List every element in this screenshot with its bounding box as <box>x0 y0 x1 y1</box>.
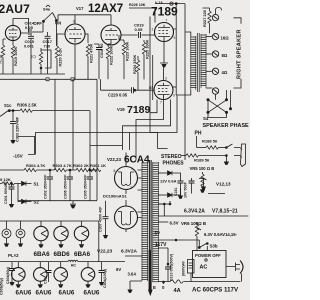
svg-text:-15V: -15V <box>13 154 24 159</box>
svg-text:10V 500F: 10V 500F <box>184 181 188 198</box>
wire diode feed <box>0 184 21 202</box>
resistor R225 100K <box>142 39 149 79</box>
svg-text:R306 2.5K: R306 2.5K <box>17 103 37 108</box>
resistor R306 2.5K <box>9 103 90 113</box>
diode D1 <box>158 171 180 180</box>
bus wire B1 <box>0 73 65 75</box>
resistor R221 470K <box>86 43 93 79</box>
svg-text:6BA6: 6BA6 <box>34 251 51 258</box>
svg-text:6V: 6V <box>116 267 121 272</box>
svg-text:SPEAKER PHASE: SPEAKER PHASE <box>203 123 250 129</box>
svg-text:R225 100K: R225 100K <box>146 39 150 59</box>
svg-text:C220 0.05: C220 0.05 <box>108 93 128 98</box>
wire V18 plate to rail <box>164 29 176 63</box>
capacitor C302 electrolytic <box>44 169 54 200</box>
resistor R301 1K <box>88 163 106 172</box>
rail P1 <box>175 4 177 96</box>
AC plug <box>226 261 243 274</box>
left margin cap label <box>0 221 4 295</box>
resistor R302 2K <box>73 163 89 172</box>
resistor R303 4.7K <box>53 163 72 172</box>
vertical long wire x150 <box>149 17 151 133</box>
svg-text:6.3V: 6.3V <box>170 221 179 226</box>
svg-text:6.3V2A: 6.3V2A <box>121 249 138 255</box>
T3 HV taps to rectifier <box>138 170 143 218</box>
resistor R220 2-2K <box>55 42 62 74</box>
output transformer T2 secondary winding <box>201 34 207 88</box>
capacitor C014 0.05 <box>25 21 44 36</box>
svg-text:PL×2: PL×2 <box>8 253 19 258</box>
resistor R189 56 <box>181 154 227 163</box>
right speaker bracket <box>234 18 242 88</box>
svg-text:0.05: 0.05 <box>135 27 144 32</box>
resistor R223 100K <box>119 35 130 79</box>
wire plate 12AU7 to C014 <box>13 18 29 33</box>
potentiometer VR5 <box>200 172 207 193</box>
svg-text:2: 2 <box>151 86 153 90</box>
choke HC <box>68 260 78 267</box>
tube V17b 12AX7 triode <box>101 25 121 45</box>
tube V heater 6AU6 3 <box>54 262 68 288</box>
svg-text:7: 7 <box>130 186 132 190</box>
svg-text:7: 7 <box>160 101 162 105</box>
tube V heater 6BD6 <box>54 221 68 248</box>
label R226 10K <box>129 3 146 7</box>
svg-text:R189 56: R189 56 <box>194 158 210 163</box>
tube V heater 6AU6 1 <box>11 262 25 288</box>
svg-text:C306 350V40F: C306 350V40F <box>64 174 68 199</box>
label V18 7189 <box>151 1 178 19</box>
capacitor C016 50 <box>94 43 104 79</box>
tube V heater 6BA6 a <box>34 221 48 248</box>
tube V heater 6BA6 b <box>74 221 88 248</box>
capacitor C312 <box>99 262 108 288</box>
svg-text:S4: S4 <box>203 116 209 121</box>
output transformer T2 core <box>198 33 200 92</box>
capacitor C017 730 <box>43 32 53 74</box>
capacitor C220 0.05 <box>101 79 155 97</box>
power transformer T3 right winding <box>152 162 159 282</box>
junction dot rail <box>175 3 177 5</box>
svg-text:VR5 100 Ω B: VR5 100 Ω B <box>190 166 215 171</box>
svg-text:(600V)40: (600V)40 <box>182 261 186 276</box>
terminal post 4ohm <box>206 68 228 75</box>
tube V16 12AU7 triode <box>5 25 20 40</box>
svg-text:R226 10K: R226 10K <box>129 3 146 7</box>
label V22,23 6CA4 <box>107 155 150 166</box>
svg-text:C016 50: C016 50 <box>100 43 104 58</box>
svg-text:R218: R218 <box>0 55 3 64</box>
vertical wire x55 <box>54 79 56 170</box>
rail P2 <box>184 4 186 113</box>
tap 117V wire <box>158 239 199 247</box>
svg-text:R221 470K: R221 470K <box>90 43 94 63</box>
wire coupling V17b to V18 <box>121 32 155 38</box>
AC bottom wire <box>158 273 241 283</box>
terminal post T0 <box>212 14 218 20</box>
power transformer T3 core <box>149 160 151 250</box>
svg-text:PH: PH <box>195 131 202 137</box>
svg-text:C305 350V40F: C305 350V40F <box>84 174 88 199</box>
svg-text:HC: HC <box>71 264 77 268</box>
svg-text:V22,23: V22,23 <box>107 157 121 162</box>
svg-text:7189: 7189 <box>127 104 151 116</box>
svg-text:ON: ON <box>55 21 61 26</box>
resistor R219 100K <box>11 40 17 74</box>
tube V18 7189 pentode <box>152 19 176 42</box>
staircase feedback wire 1 <box>150 100 157 113</box>
-15V corner wire <box>18 137 35 155</box>
svg-text:C301 50V40F: C301 50V40F <box>4 181 8 204</box>
svg-text:117V: 117V <box>155 242 167 248</box>
resistor R224 330K <box>133 54 140 90</box>
transformer primary connections <box>176 32 191 95</box>
bus wire B2 <box>0 78 97 80</box>
svg-text:C304(60μ): C304(60μ) <box>6 267 10 284</box>
svg-text:4Ω: 4Ω <box>222 70 228 75</box>
tap 6.3V <box>158 221 178 226</box>
switch S3b <box>198 243 218 251</box>
svg-text:R222 100K: R222 100K <box>110 45 114 65</box>
svg-text:7: 7 <box>67 29 69 33</box>
jack ground <box>224 156 229 165</box>
svg-text:8Ω: 8Ω <box>222 53 228 58</box>
svg-text:4A: 4A <box>174 288 181 294</box>
heater bus row1 <box>0 221 99 262</box>
wire heater right branch <box>90 111 123 146</box>
svg-text:PHONES: PHONES <box>163 161 185 167</box>
wire x185 lower <box>184 112 186 160</box>
wire V19 plate <box>173 86 176 88</box>
svg-text:R224 330K: R224 330K <box>133 54 137 74</box>
vertical wire x90 <box>89 146 91 170</box>
rail top wire <box>155 3 185 5</box>
resistor R226 wire <box>129 8 155 23</box>
rail B junction <box>170 2 173 5</box>
tube V22 6CA4 rectifier <box>114 153 138 195</box>
svg-text:R302 2K: R302 2K <box>73 163 89 168</box>
svg-text:6BD6: 6BD6 <box>54 251 71 258</box>
svg-text:(c): (c) <box>31 54 36 59</box>
svg-text:12V 0.6A: 12V 0.6A <box>160 179 177 184</box>
svg-text:6AU6: 6AU6 <box>36 290 52 297</box>
svg-text:6.3V 0.6AV14,15-: 6.3V 0.6AV14,15- <box>204 232 238 237</box>
svg-text:V17: V17 <box>76 6 84 11</box>
svg-text:VR6 100Ω B: VR6 100Ω B <box>181 221 206 226</box>
wire S3b to box <box>196 238 198 250</box>
capacitor C015 0.001 <box>24 33 35 74</box>
terminal post common <box>206 88 219 94</box>
svg-text:OFF: OFF <box>34 21 43 26</box>
terminal post 8ohm <box>206 51 228 58</box>
capacitor C182 <box>189 178 195 194</box>
svg-text:6AU6: 6AU6 <box>16 290 32 297</box>
svg-text:3.6A: 3.6A <box>128 272 137 277</box>
staircase feedback wire 3 <box>123 100 171 151</box>
label E O <box>153 285 165 290</box>
svg-text:C309(60μ): C309(60μ) <box>0 278 4 295</box>
wire tube V17a pins <box>57 34 88 79</box>
staircase feedback wire 4 <box>130 96 178 151</box>
svg-text:R304 4.7K: R304 4.7K <box>26 163 45 168</box>
tube V heater 6AU6 2 <box>34 262 48 288</box>
terminal post 16ohm <box>206 33 229 40</box>
svg-text:R303 4.7K: R303 4.7K <box>53 163 72 168</box>
resistor R218 (left) <box>0 39 6 74</box>
capacitor C305 electrolytic <box>84 169 94 200</box>
output transformer T2 primary winding <box>190 36 196 90</box>
pilot lamp PL2 <box>16 221 25 247</box>
svg-text:16Ω: 16Ω <box>221 36 230 41</box>
svg-text:R223 100K: R223 100K <box>126 41 130 61</box>
svg-text:POWER OFF: POWER OFF <box>195 253 221 258</box>
wire V19 cathode ground <box>160 63 168 81</box>
capacitor C306 electrolytic <box>64 169 74 200</box>
potentiometer VR6 <box>195 222 201 238</box>
capacitor C310 0.05 600V <box>158 248 173 282</box>
label 6.3V4.2A V7,8,15-21 <box>184 209 238 215</box>
ground mid <box>70 201 76 209</box>
svg-text:RIGHT SPEAKER: RIGHT SPEAKER <box>237 29 243 79</box>
phones bracket wire <box>196 136 198 148</box>
svg-text:5V: 5V <box>155 231 162 236</box>
power transformer T3 left winding <box>142 162 149 281</box>
speaker phase switch S4 <box>207 90 232 117</box>
svg-text:C304(100μ): C304(100μ) <box>103 269 107 288</box>
svg-text:6BA6: 6BA6 <box>74 251 91 258</box>
svg-text:STEREO: STEREO <box>161 154 182 160</box>
pilot lamp PL1 <box>2 221 11 247</box>
vertical wire x73 <box>72 79 74 170</box>
svg-text:6AU6: 6AU6 <box>59 290 75 297</box>
terminal hook wire <box>216 7 222 14</box>
ground heater <box>127 290 132 293</box>
svg-text:C311: C311 <box>44 276 48 284</box>
svg-text:R301 1K: R301 1K <box>90 163 106 168</box>
svg-text:S1: S1 <box>34 182 40 187</box>
svg-text:7: 7 <box>166 19 168 23</box>
svg-text:6.3V4.2A: 6.3V4.2A <box>184 209 205 215</box>
svg-text:AC 60CPS 117V: AC 60CPS 117V <box>192 287 239 294</box>
svg-text:R220 2-2K: R220 2-2K <box>59 48 63 67</box>
svg-text:7189: 7189 <box>151 5 178 19</box>
tap 6.3V4.2A <box>158 201 248 216</box>
svg-text:0.05: 0.05 <box>25 25 34 30</box>
svg-text:0.001: 0.001 <box>24 44 35 49</box>
capacitor C304 60u <box>6 262 15 286</box>
ground E <box>163 281 165 284</box>
heater wire left taps <box>125 256 142 290</box>
junction x <box>46 78 49 82</box>
heater bus row2 <box>0 261 125 263</box>
svg-text:V22,23: V22,23 <box>97 249 113 255</box>
svg-text:DC190mA: DC190mA <box>103 194 122 199</box>
tube V17a 12AX7 triode <box>65 20 85 45</box>
junction y <box>71 78 74 82</box>
svg-text:V7,8,15~21: V7,8,15~21 <box>212 209 238 215</box>
svg-text:9: 9 <box>174 36 176 40</box>
wire v12 stub <box>199 179 225 194</box>
tube V19 7189 pentode <box>151 77 175 105</box>
capacitor C301 <box>4 181 14 208</box>
svg-text:6AU6: 6AU6 <box>84 290 100 297</box>
node (c) and resistor <box>31 48 51 74</box>
svg-text:V12,13: V12,13 <box>216 182 231 187</box>
svg-text:C181: C181 <box>174 187 178 196</box>
label V22,23 6.3V2A <box>97 249 138 255</box>
svg-text:2AU7: 2AU7 <box>0 2 30 16</box>
resistor R227 220 <box>202 8 211 33</box>
capacitor C019 0.05 <box>134 23 144 33</box>
capacitor C181 <box>174 180 184 199</box>
svg-text:9 12K: 9 12K <box>0 177 11 182</box>
label STEREO PHONES <box>161 154 184 167</box>
wire grid feed <box>58 15 111 25</box>
label V19 7189 <box>117 104 151 116</box>
resistor R222 100K <box>106 44 113 80</box>
ground V19 <box>161 64 166 67</box>
svg-text:R188 56: R188 56 <box>202 139 218 144</box>
diode S2 <box>22 199 40 204</box>
svg-text:S4a: S4a <box>43 8 51 12</box>
tube V heater 6AU6 4 <box>81 262 95 288</box>
svg-text:C310 0.05(600V): C310 0.05(600V) <box>170 254 174 281</box>
vertical wire x152.5 <box>152 55 154 100</box>
box left edge wire <box>96 79 98 200</box>
capacitor C180 600V <box>182 260 195 277</box>
feedback long wire <box>36 133 130 155</box>
power off box <box>193 251 227 278</box>
svg-text:C303 220V40F: C303 220V40F <box>15 116 19 142</box>
capacitor C303 electrolytic <box>10 110 19 144</box>
switch S4a OFF/ON <box>34 5 62 46</box>
svg-text:C302 350V40F: C302 350V40F <box>44 174 48 199</box>
svg-text:S3b: S3b <box>210 244 218 249</box>
svg-text:1: 1 <box>131 167 133 171</box>
staircase feedback wire 2 <box>136 100 164 161</box>
svg-text:12AX7: 12AX7 <box>88 3 123 15</box>
label V17 12AX7 <box>76 3 123 15</box>
svg-text:2: 2 <box>152 28 154 32</box>
bias chain bus <box>0 169 97 171</box>
svg-text:V19: V19 <box>117 107 125 112</box>
box corner wire right <box>150 133 168 149</box>
ground bus mid <box>18 200 97 202</box>
svg-text:R227 220: R227 220 <box>202 9 207 27</box>
resistor R304 4.7K <box>24 163 45 172</box>
capacitor C307 450V <box>99 201 109 239</box>
svg-text:S2: S2 <box>34 200 40 205</box>
diode S1 <box>22 181 40 186</box>
resistor R188 56 <box>197 139 233 150</box>
diode D2 <box>158 188 180 197</box>
svg-text:8: 8 <box>114 169 116 173</box>
svg-text:3: 3 <box>165 77 167 81</box>
svg-text:730: 730 <box>44 44 51 49</box>
svg-text:R219 100K: R219 100K <box>14 46 18 66</box>
svg-text:S1c: S1c <box>4 103 12 108</box>
capacitor C311 <box>44 262 52 284</box>
switch S1c <box>0 103 12 117</box>
svg-text:AC: AC <box>200 265 208 271</box>
svg-text:9: 9 <box>173 94 175 98</box>
tube V23 6CA4 rectifier <box>115 200 138 232</box>
headphone jack <box>234 144 246 167</box>
svg-text:6CA4: 6CA4 <box>124 155 150 166</box>
svg-text:E: E <box>153 285 156 290</box>
